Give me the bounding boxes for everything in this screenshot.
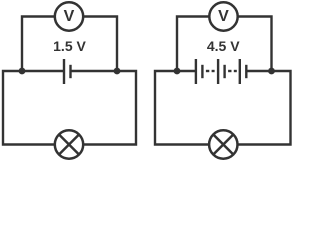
wire dashed link 2 xyxy=(228,70,237,72)
wire voltmeter branch left (right circuit) xyxy=(177,17,209,72)
left circuit outer loop wire xyxy=(3,71,136,145)
lamp L2 xyxy=(209,130,237,158)
svg-text:V: V xyxy=(64,8,75,25)
battery cell B1 long plate xyxy=(63,59,65,84)
node junction dot right (right circuit) xyxy=(268,68,275,75)
node junction dot right xyxy=(114,68,121,75)
battery cell B2b long plate xyxy=(217,59,219,84)
wire dashed link 1 xyxy=(206,70,215,72)
voltmeter V1 xyxy=(55,2,83,30)
svg-text:1.5 V: 1.5 V xyxy=(53,38,86,54)
right circuit outer loop wire xyxy=(155,71,291,145)
battery cell B2b short plate xyxy=(223,65,225,78)
battery cell B2a short plate xyxy=(201,65,203,78)
voltmeter V2 xyxy=(209,2,237,30)
svg-text:4.5 V: 4.5 V xyxy=(207,38,240,54)
node junction dot left (right circuit) xyxy=(174,68,181,75)
wire voltmeter branch right xyxy=(83,17,117,72)
wire voltmeter branch left xyxy=(22,17,55,72)
battery cell B2a long plate xyxy=(195,59,197,84)
lamp L1 xyxy=(55,130,83,158)
battery cell B2c short plate xyxy=(245,65,247,78)
svg-text:V: V xyxy=(218,8,229,25)
wire voltmeter branch right (right circuit) xyxy=(238,17,272,72)
node junction dot left xyxy=(19,68,26,75)
battery cell B1 short plate xyxy=(69,65,71,78)
battery cell B2c long plate xyxy=(239,59,241,84)
